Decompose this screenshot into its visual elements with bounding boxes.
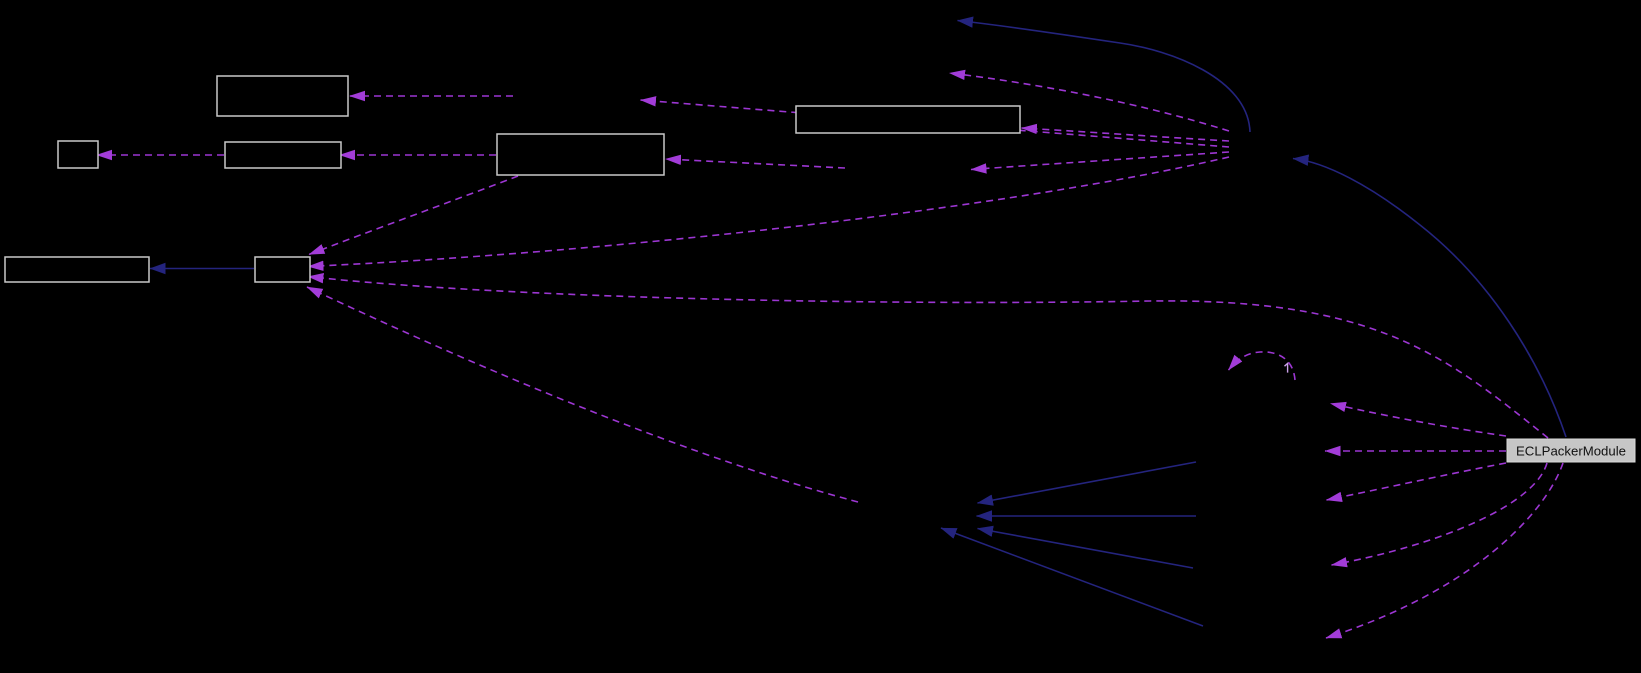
- edge: dashed arrow hub to hidden node N1 (passes behind box E): [641, 100, 1230, 147]
- svg-text:ECLPackerModule: ECLPackerModule: [1516, 444, 1626, 459]
- edge: blue solid curve hub to node K18 top left: [958, 21, 1251, 133]
- node ECLPackerModule: [1507, 439, 1635, 462]
- node box G: [255, 257, 310, 282]
- node box C: [225, 142, 341, 168]
- edge: blue solid line R4 to bottom base node: [978, 529, 1194, 569]
- edge: dashed fan arrow 1 ECLPackerModule to self-loop node R1: [1331, 404, 1507, 437]
- node box D: [497, 134, 664, 175]
- label ECLPackerModule: [1516, 444, 1626, 459]
- edge: dashed arrow hub to hidden node N2: [971, 152, 1229, 170]
- edge: blue solid line R3 to bottom base node: [977, 515, 1197, 517]
- edge: dashed fan arrow 4 ECLPackerModule to node R4: [1332, 463, 1548, 565]
- edge: dashed arrow bottom hidden node X to box G bottom corner: [307, 287, 858, 502]
- edge: dashed arrow hidden-node N1 to box A: [350, 95, 514, 97]
- edge: dashed self-loop on node R1: [1229, 352, 1296, 380]
- edge: dashed arrow box C to box B: [97, 154, 225, 156]
- edge: blue solid line R2 to bottom base node: [978, 462, 1197, 503]
- edge: dashed fan arrow 5 ECLPackerModule to node R5: [1326, 463, 1563, 638]
- node box F: [5, 257, 149, 282]
- label: self-loop multiplicity 1: [1285, 363, 1288, 372]
- edge: dashed arrow hub to node K49: [950, 73, 1230, 131]
- edge: blue solid curve ECLPackerModule to hub: [1293, 159, 1566, 438]
- edge: long dashed arrow ECLPackerModule to box G lower: [308, 277, 1548, 439]
- edge: blue solid line R5 to bottom base node: [941, 528, 1203, 626]
- edge: dashed arrow box D to box G top corner: [309, 176, 518, 255]
- edge: dashed arrow hub to box E: [1022, 128, 1230, 141]
- edge: dashed arrow hidden node N2 to box D: [666, 159, 846, 168]
- edge: blue solid arrow box G to box F: [150, 268, 254, 270]
- edge: dashed fan arrow 3 ECLPackerModule to node R3: [1327, 463, 1507, 500]
- edge: dashed arrow hub to box G upper: [308, 157, 1229, 267]
- node box B: [58, 141, 98, 168]
- node box A: [217, 76, 348, 116]
- node box E: [796, 106, 1020, 133]
- edge: dashed arrow box D to box C: [340, 154, 497, 156]
- edge: dashed fan arrow 2 ECLPackerModule to node R2: [1325, 450, 1506, 452]
